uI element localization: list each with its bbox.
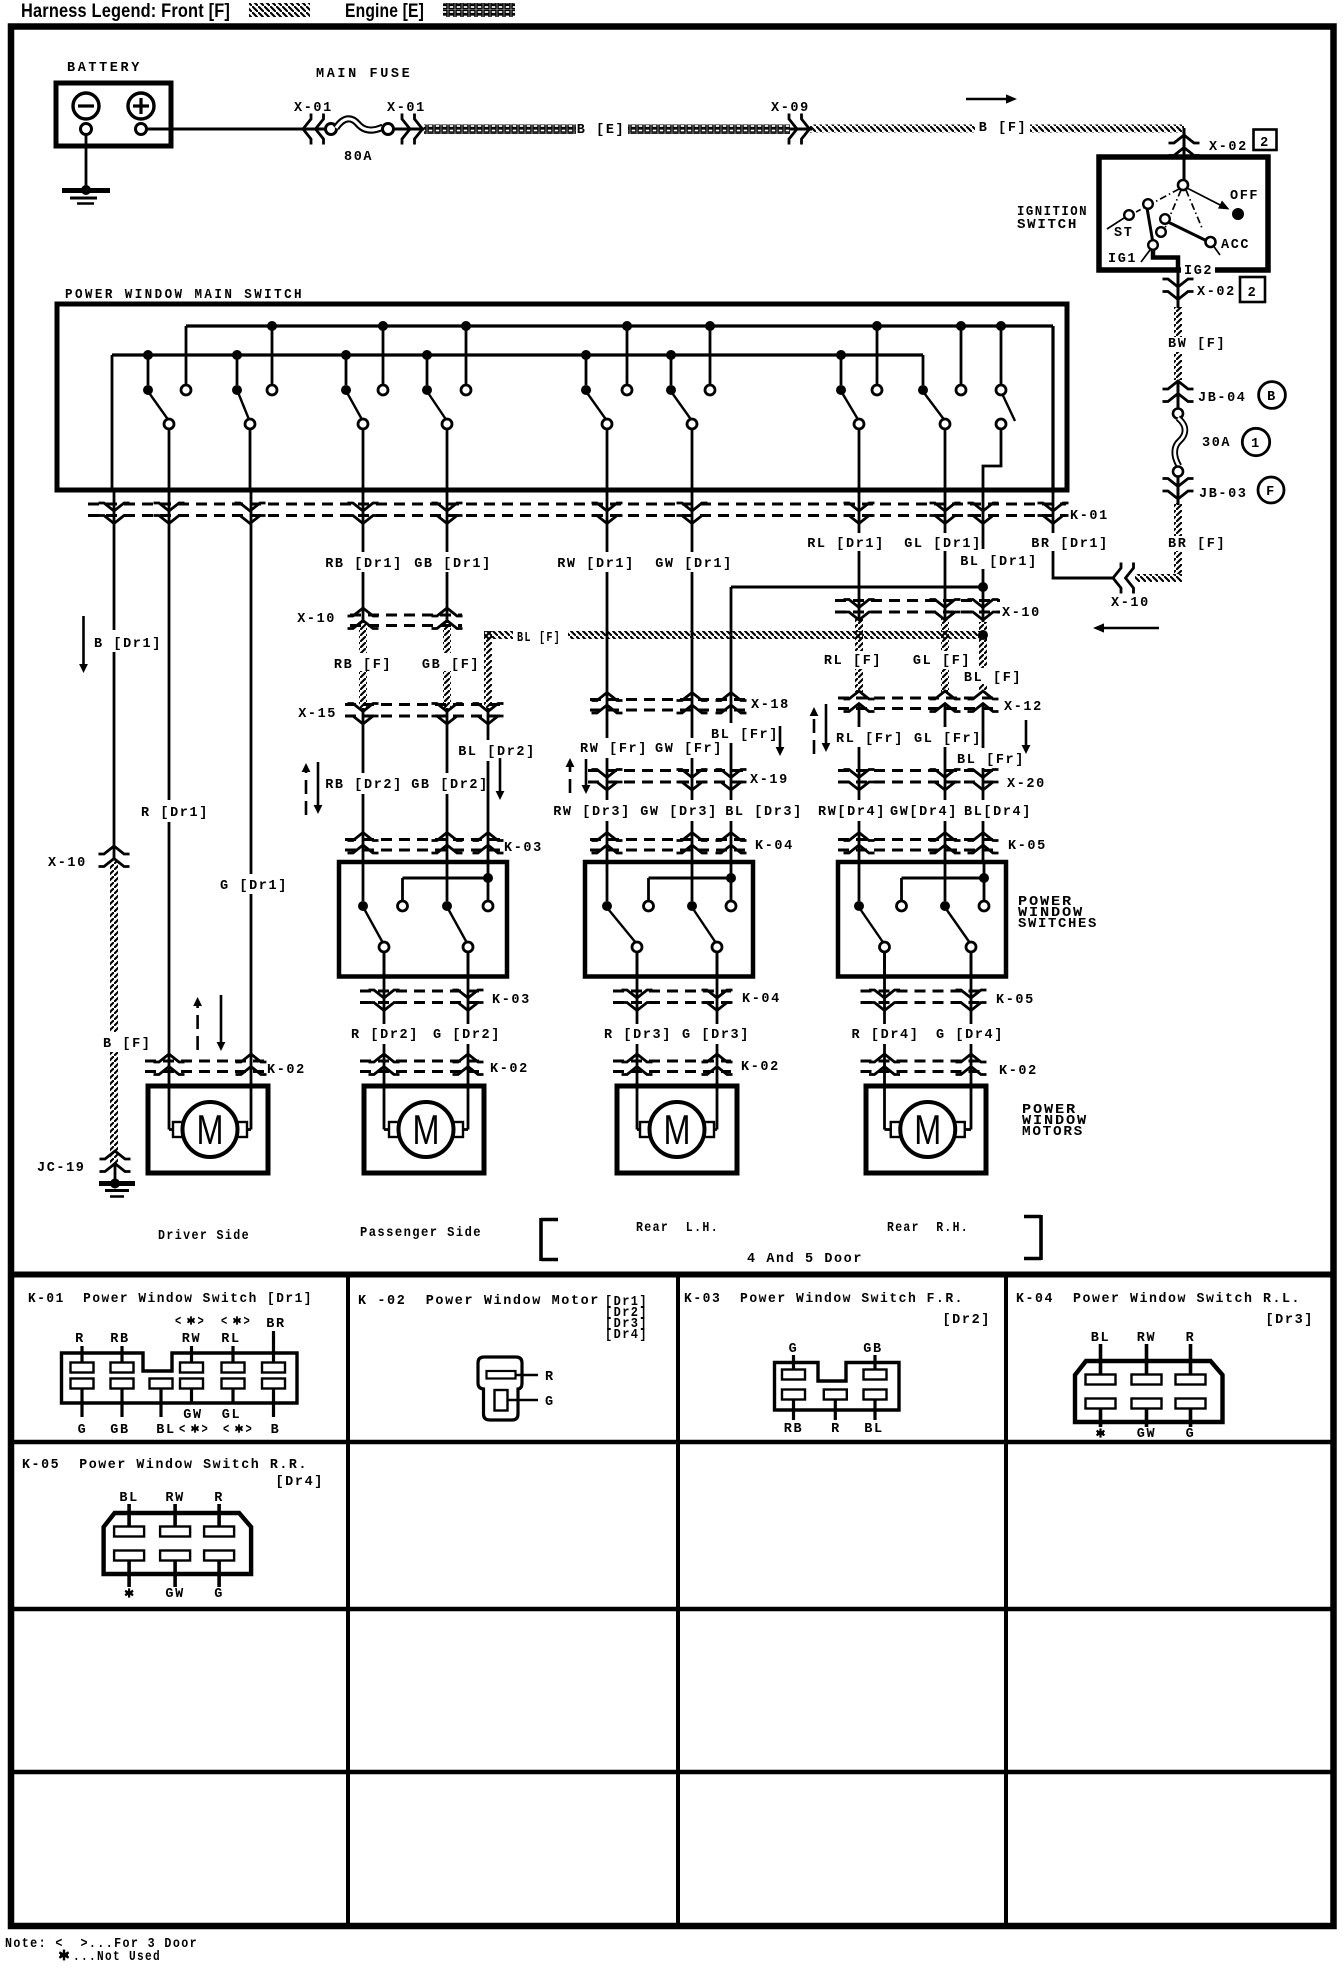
svg-text:GW: GW	[183, 1408, 202, 1423]
wire R [Dr1]	[141, 490, 209, 1086]
svg-text:K-05: K-05	[1008, 839, 1047, 854]
engine harness hatch swatch	[443, 3, 515, 17]
connector X-02 lower	[1163, 277, 1266, 302]
fuse 80A main fuse	[326, 119, 394, 165]
connector X-09	[771, 101, 812, 145]
wire RL [F]	[824, 618, 882, 692]
svg-text:[Dr4]: [Dr4]	[275, 1475, 324, 1490]
wires Dr3 between X-19 and K-04	[607, 743, 731, 862]
svg-text:...Not Used: ...Not Used	[73, 1950, 161, 1965]
connector K-02 row rear left	[613, 1054, 780, 1075]
connector X-12	[838, 691, 1043, 715]
label RW [Dr3] GW [Dr3] BL [Dr3]	[553, 805, 803, 820]
svg-text:K-05 Power Window Switch R.R.: K-05 Power Window Switch R.R.	[22, 1458, 308, 1473]
svg-text:RW [Fr]: RW [Fr]	[580, 742, 648, 757]
svg-text:JB-03: JB-03	[1199, 487, 1248, 502]
connector X-01 left	[294, 101, 333, 145]
svg-text:OFF: OFF	[1230, 189, 1259, 204]
svg-text:GW [Fr]: GW [Fr]	[655, 742, 723, 757]
connector drawing K-02 motor	[478, 1357, 555, 1420]
connector K-02 row driver	[145, 1054, 306, 1078]
bracket right 4/5 door	[1024, 1215, 1041, 1260]
connector table grid	[8, 1274, 1336, 1926]
svg-text:GB [Dr1]: GB [Dr1]	[414, 557, 492, 572]
wire G [Dr1]	[220, 490, 288, 1086]
svg-text:BL: BL	[1091, 1331, 1110, 1346]
svg-text:RL: RL	[221, 1332, 240, 1347]
main switch contact unit 4	[422, 385, 471, 490]
svg-text:GL: GL	[222, 1408, 241, 1423]
wire BL [Fr] left	[711, 728, 779, 743]
connector X-15	[298, 704, 503, 725]
svg-text:K-01 Power Window Switch [Dr1: K-01 Power Window Switch [Dr1]	[28, 1292, 313, 1307]
svg-text:GL [Fr]: GL [Fr]	[914, 732, 982, 747]
svg-text:BR: BR	[266, 1317, 285, 1332]
svg-text:Engine [E]: Engine [E]	[345, 1, 424, 22]
table title K-02 Power Window Motor	[358, 1294, 648, 1343]
svg-text:SWITCHES: SWITCHES	[1018, 917, 1098, 932]
svg-text:RB [Dr2]: RB [Dr2]	[325, 778, 403, 793]
svg-text:[Dr2]: [Dr2]	[942, 1313, 991, 1328]
svg-text:ST: ST	[1114, 226, 1133, 241]
svg-text:R: R	[545, 1370, 555, 1385]
wire GW [Dr1]	[655, 490, 733, 738]
svg-text:RW: RW	[182, 1332, 201, 1347]
connector drawing K-03	[775, 1355, 900, 1420]
svg-text:BL [Dr2]: BL [Dr2]	[458, 745, 536, 760]
wire BL [F] vertical to X-12	[964, 587, 1022, 692]
svg-text:B: B	[1267, 390, 1277, 405]
svg-text:BL: BL	[156, 1423, 175, 1438]
wire RB [Dr2]	[362, 708, 365, 862]
fuse number 1 circle	[1242, 428, 1269, 455]
arrow left (current flow)	[1093, 623, 1159, 632]
pin labels K-01 bottom	[78, 1408, 281, 1438]
svg-text:30A: 30A	[1202, 436, 1231, 451]
wire BL [Dr1]	[731, 490, 1038, 723]
svg-text:BL [Dr3]: BL [Dr3]	[725, 805, 803, 820]
label R/G [Dr2]	[351, 1028, 501, 1043]
table title K-04 Power Window Switch R.L.	[1016, 1292, 1314, 1328]
svg-text:K-04: K-04	[742, 992, 781, 1007]
connector JB-03	[1163, 479, 1248, 503]
svg-text:X-10: X-10	[1111, 596, 1150, 611]
svg-text:X-19: X-19	[750, 773, 789, 788]
svg-text:R [Dr1]: R [Dr1]	[141, 806, 209, 821]
svg-text:BL [F]: BL [F]	[517, 631, 561, 646]
svg-text:M: M	[664, 1106, 691, 1153]
svg-text:X-01: X-01	[387, 101, 426, 116]
svg-text:BL [Dr1]: BL [Dr1]	[960, 555, 1038, 570]
arrow down BL [Fr] right	[1022, 720, 1031, 754]
power window main switch box	[57, 304, 1067, 490]
svg-text:K-03: K-03	[504, 841, 543, 856]
connector X-10 on BR wire	[1111, 563, 1150, 612]
svg-text:X-20: X-20	[1007, 777, 1046, 792]
svg-text:< >: < >	[223, 1423, 253, 1438]
svg-text:ACC: ACC	[1221, 238, 1250, 253]
svg-text:K-04 Power Window Switch R.L.: K-04 Power Window Switch R.L.	[1016, 1292, 1301, 1307]
ground battery	[62, 185, 110, 204]
wires rear left switch outputs	[637, 952, 717, 1086]
wire GB [Dr1]	[414, 490, 492, 623]
wire ignition IG2 output	[1177, 271, 1180, 308]
power window switch box passenger	[339, 862, 507, 977]
svg-text:RB: RB	[784, 1422, 803, 1437]
svg-text:F: F	[1266, 485, 1276, 500]
wire BW [F]	[1168, 307, 1226, 380]
svg-text:< >: < >	[179, 1423, 209, 1438]
svg-text:G: G	[545, 1395, 555, 1410]
connector K-05 upper row	[838, 833, 1047, 855]
connector drawing K-01	[62, 1331, 298, 1417]
power window motor driver	[148, 1086, 268, 1173]
svg-text:JB-04: JB-04	[1198, 391, 1247, 406]
svg-text:BL [Fr]: BL [Fr]	[711, 728, 779, 743]
wire BR [Dr1] horizontal	[1053, 577, 1113, 580]
wire BR [Dr1] vertical	[1031, 490, 1109, 580]
svg-text:GW [Dr1]: GW [Dr1]	[655, 557, 733, 572]
connector K-02 row passenger	[360, 1054, 529, 1077]
svg-text:2: 2	[1260, 136, 1270, 151]
connector X-19	[588, 770, 789, 791]
svg-text:G [Dr4]: G [Dr4]	[936, 1028, 1004, 1043]
svg-text:G [Dr1]: G [Dr1]	[220, 879, 288, 894]
connector K-04 upper row	[590, 833, 794, 855]
wire GL [Dr1]	[904, 490, 982, 620]
label Passenger Side	[360, 1226, 482, 1241]
wire GL [Fr]	[914, 704, 982, 748]
connector K-03 lower row	[360, 990, 531, 1011]
svg-text:GB: GB	[863, 1342, 882, 1357]
connector drawing K-05	[104, 1491, 252, 1602]
svg-text:R: R	[1186, 1331, 1196, 1346]
svg-text:K-01: K-01	[1070, 509, 1109, 524]
wire RW [Dr1]	[557, 490, 635, 738]
label Rear R.H.	[887, 1221, 969, 1236]
svg-text:G [Dr2]: G [Dr2]	[433, 1028, 501, 1043]
svg-text:SWITCH: SWITCH	[1017, 218, 1078, 233]
pin labels K-03	[784, 1342, 884, 1437]
main switch contact unit 1	[143, 385, 191, 490]
svg-text:B [Dr1]: B [Dr1]	[94, 637, 162, 652]
connector JC-19	[37, 1151, 131, 1176]
svg-text:R [Dr3]: R [Dr3]	[604, 1028, 672, 1043]
svg-text:G: G	[214, 1587, 224, 1602]
svg-text:K-04: K-04	[755, 839, 794, 854]
wire into ignition switch	[1183, 152, 1186, 181]
table title K-03 Power Window Switch F.R.	[684, 1292, 991, 1328]
label R/G [Dr3]	[604, 1028, 750, 1043]
svg-text:IG1: IG1	[1108, 252, 1137, 267]
svg-text:K-02: K-02	[999, 1064, 1038, 1079]
wire battery positive to X-01	[147, 128, 326, 131]
label Rear L.H.	[636, 1221, 719, 1236]
label R/G [Dr4]	[852, 1028, 1004, 1043]
svg-text:RW[Dr4]: RW[Dr4]	[818, 805, 886, 820]
svg-text:R: R	[75, 1332, 85, 1347]
connector X-10 on RB/GB	[297, 608, 462, 629]
wire GL [F]	[913, 618, 971, 692]
arrows up/down rear RH	[810, 704, 831, 754]
connector X-20	[838, 770, 1046, 793]
svg-text:X-09: X-09	[771, 101, 810, 116]
svg-text:M: M	[197, 1106, 224, 1153]
switch contacts rear left	[602, 862, 736, 976]
power window motor passenger	[364, 1086, 484, 1173]
svg-text:R [Dr4]: R [Dr4]	[852, 1028, 920, 1043]
junction block B circle	[1259, 382, 1286, 409]
arrows up/down passenger	[302, 762, 323, 815]
svg-text:BW [F]: BW [F]	[1168, 337, 1226, 352]
wire BL [Dr2]	[458, 708, 536, 862]
wire GB [Dr2]	[446, 708, 449, 862]
svg-text:80A: 80A	[344, 150, 373, 165]
svg-text:RB: RB	[110, 1332, 129, 1347]
label IGNITION SWITCH	[1017, 205, 1088, 233]
svg-text:RL [F]: RL [F]	[824, 654, 882, 669]
svg-text:K-02: K-02	[267, 1063, 306, 1078]
svg-text:BL [F]: BL [F]	[964, 671, 1022, 686]
svg-text:Passenger Side: Passenger Side	[360, 1226, 482, 1241]
main switch contact unit 8	[918, 385, 966, 490]
svg-text:IG2: IG2	[1184, 264, 1213, 279]
svg-text:GB: GB	[110, 1423, 129, 1438]
wires passenger switch outputs	[384, 952, 468, 1086]
connector K-03 upper row	[345, 833, 543, 857]
power window motor rear left	[617, 1086, 737, 1173]
svg-text:RW [Dr1]: RW [Dr1]	[557, 557, 635, 572]
switch contacts passenger	[358, 862, 493, 976]
wires rear right switch outputs	[885, 952, 972, 1086]
wire B [F] to ground	[103, 860, 152, 1165]
connector X-18	[590, 693, 790, 714]
main switch contact unit 5	[581, 385, 632, 490]
svg-text:R [Dr2]: R [Dr2]	[351, 1028, 419, 1043]
svg-text:RL [Dr1]: RL [Dr1]	[807, 537, 885, 552]
svg-text:MOTORS: MOTORS	[1022, 1125, 1084, 1140]
connector K-05 lower row	[861, 990, 1035, 1011]
svg-text:Harness Legend: Front [F]: Harness Legend: Front [F]	[21, 1, 230, 22]
svg-text:BR [F]: BR [F]	[1168, 537, 1226, 552]
svg-text:R: R	[214, 1491, 224, 1506]
wire RW [Fr]	[580, 738, 648, 757]
svg-text:BL [Fr]: BL [Fr]	[957, 753, 1025, 768]
connector X-10 on RL/GL/BL	[835, 600, 1041, 622]
note for 3 door	[5, 1937, 198, 1965]
svg-text:GB [F]: GB [F]	[422, 658, 480, 673]
wire RL [Fr]	[836, 704, 904, 748]
main switch contact unit 7	[836, 385, 882, 490]
harness legend header	[21, 1, 424, 22]
svg-text:[Dr3]: [Dr3]	[1265, 1313, 1314, 1328]
svg-text:X-18: X-18	[751, 698, 790, 713]
svg-text:4 And 5 Door: 4 And 5 Door	[747, 1252, 863, 1267]
svg-text:2: 2	[1248, 286, 1258, 301]
front harness hatch swatch	[249, 3, 310, 17]
svg-text:MAIN FUSE: MAIN FUSE	[316, 67, 412, 82]
svg-text:X-01: X-01	[294, 101, 333, 116]
connector K-02 row rear right	[861, 1054, 1038, 1079]
ground JC-19	[99, 1165, 135, 1197]
label 4 And 5 Door	[747, 1252, 863, 1267]
power window switch box rear right	[838, 862, 1006, 977]
wire B [F] front harness top	[810, 121, 1184, 136]
svg-text:GL [F]: GL [F]	[913, 654, 971, 669]
main switch contact unit 3	[341, 385, 388, 490]
label RW[Dr4] GW[Dr4] BL[Dr4]	[818, 805, 1032, 820]
fuse 30A	[1173, 380, 1231, 505]
svg-text:K-03: K-03	[492, 993, 531, 1008]
svg-text:G: G	[78, 1423, 88, 1438]
svg-text:X-10: X-10	[1002, 606, 1041, 621]
svg-text:Rear R.H.: Rear R.H.	[887, 1221, 969, 1236]
svg-text:B [F]: B [F]	[103, 1037, 152, 1052]
svg-text:RW [Dr3]: RW [Dr3]	[553, 805, 631, 820]
arrows up/down driver motor	[193, 995, 225, 1051]
label MAIN FUSE	[316, 67, 412, 82]
wire BR [F]	[1135, 503, 1226, 582]
svg-text:B [E]: B [E]	[577, 123, 626, 138]
svg-text:Rear L.H.: Rear L.H.	[636, 1221, 719, 1236]
svg-text:M: M	[914, 1106, 941, 1153]
ignition switch rotary contacts	[1107, 180, 1259, 279]
svg-text:GB [Dr2]: GB [Dr2]	[411, 778, 489, 793]
connector X-01 right	[387, 101, 426, 145]
svg-text:X-10: X-10	[48, 856, 87, 871]
svg-text:BR [Dr1]: BR [Dr1]	[1031, 537, 1109, 552]
svg-text:X-02: X-02	[1209, 140, 1248, 155]
upper bus (BR feed) inside main switch	[186, 321, 1053, 490]
connector JB-04	[1163, 381, 1247, 406]
svg-text:[Dr4]: [Dr4]	[605, 1328, 648, 1343]
junction block F circle	[1258, 477, 1284, 503]
svg-text:GW[Dr4]: GW[Dr4]	[890, 805, 958, 820]
arrow right (current flow)	[966, 94, 1017, 103]
label POWER WINDOW MOTORS	[1022, 1103, 1088, 1140]
arrow down BL [Dr2]	[496, 758, 505, 800]
svg-text:K-03 Power Window Switch F.R.: K-03 Power Window Switch F.R.	[684, 1292, 964, 1307]
wire BL [Fr] right	[957, 704, 1025, 769]
svg-text:K-02: K-02	[490, 1062, 529, 1077]
bracket left 4/5 door	[541, 1218, 558, 1261]
label POWER WINDOW SWITCHES	[1018, 895, 1098, 932]
wire RB [F]	[334, 623, 392, 708]
svg-text:G: G	[1186, 1427, 1196, 1442]
battery	[56, 61, 171, 146]
wire GW [Fr]	[655, 742, 723, 757]
svg-text:X-15: X-15	[298, 707, 337, 722]
switch contacts rear right	[854, 862, 989, 976]
svg-text:Driver Side: Driver Side	[158, 1229, 250, 1244]
table title K-05 Power Window Switch R.R.	[22, 1458, 324, 1490]
main switch contact unit 2	[232, 385, 277, 490]
svg-text:GW [Dr3]: GW [Dr3]	[640, 805, 718, 820]
wire RB [Dr1]	[325, 490, 403, 623]
svg-text:< >: < >	[175, 1315, 205, 1330]
svg-text:X-10: X-10	[297, 612, 336, 627]
wire battery negative to ground	[85, 134, 88, 190]
main switch contact unit 6	[666, 385, 715, 490]
power window switch box rear left	[585, 862, 753, 977]
label Driver Side	[158, 1229, 250, 1244]
svg-text:K-02: K-02	[741, 1060, 780, 1075]
connector K-04 lower row	[613, 990, 781, 1011]
svg-text:RL [Fr]: RL [Fr]	[836, 732, 904, 747]
svg-text:< >: < >	[221, 1315, 251, 1330]
svg-text:R: R	[831, 1422, 841, 1437]
lower bus (B feed) inside main switch	[112, 350, 923, 490]
svg-text:GL [Dr1]: GL [Dr1]	[904, 537, 982, 552]
wire RL [Dr1]	[807, 490, 885, 620]
pin labels K-01 top	[75, 1315, 286, 1347]
label RB [Dr2] GB [Dr2]	[325, 778, 489, 793]
wire B [Dr1]	[94, 490, 162, 860]
connector X-02 upper	[1169, 128, 1277, 160]
svg-text:X-02: X-02	[1197, 285, 1236, 300]
table title K-01 Power Window Switch [Dr1]	[28, 1292, 313, 1307]
connector K-01 row	[88, 503, 1109, 524]
arrow down BL [Fr] left	[776, 726, 785, 756]
wire GB [F]	[422, 623, 480, 708]
arrows up/down rear LH	[566, 758, 591, 794]
svg-text:X-12: X-12	[1004, 700, 1043, 715]
svg-text:RB [Dr1]: RB [Dr1]	[325, 557, 403, 572]
svg-text:K -02 Power Window Motor: K -02 Power Window Motor	[358, 1294, 600, 1309]
svg-text:GW: GW	[165, 1587, 184, 1602]
svg-text:G: G	[789, 1342, 799, 1357]
svg-text:RB [F]: RB [F]	[334, 658, 392, 673]
label POWER WINDOW MAIN SWITCH	[65, 288, 304, 303]
svg-text:GW: GW	[1137, 1427, 1156, 1442]
svg-text:B: B	[271, 1423, 281, 1438]
svg-text:RW: RW	[165, 1491, 184, 1506]
wire BL [F] horizontal branch	[484, 630, 988, 708]
svg-text:G [Dr3]: G [Dr3]	[682, 1028, 750, 1043]
arrow down on B [Dr1]	[79, 616, 88, 673]
svg-text:BL: BL	[864, 1422, 883, 1437]
wire B [E] engine harness	[424, 123, 790, 138]
ignition switch box	[1099, 157, 1268, 270]
svg-text:BL[Dr4]: BL[Dr4]	[964, 805, 1032, 820]
svg-text:RW: RW	[1137, 1331, 1156, 1346]
svg-text:K-05: K-05	[996, 993, 1035, 1008]
connector X-10 on B wire	[48, 846, 130, 871]
svg-text:BL: BL	[119, 1491, 138, 1506]
svg-text:BATTERY: BATTERY	[67, 61, 142, 76]
svg-text:JC-19: JC-19	[37, 1161, 86, 1176]
svg-text:B [F]: B [F]	[979, 121, 1028, 136]
power window motor rear right	[866, 1086, 986, 1173]
main switch lockout switch	[983, 385, 1015, 490]
svg-text:M: M	[413, 1106, 440, 1153]
svg-text:1: 1	[1251, 437, 1261, 452]
connector drawing K-04	[1075, 1331, 1223, 1442]
wires Dr4 between X-20 and K-05	[859, 747, 983, 862]
svg-text:POWER WINDOW MAIN SWITCH: POWER WINDOW MAIN SWITCH	[65, 288, 304, 303]
